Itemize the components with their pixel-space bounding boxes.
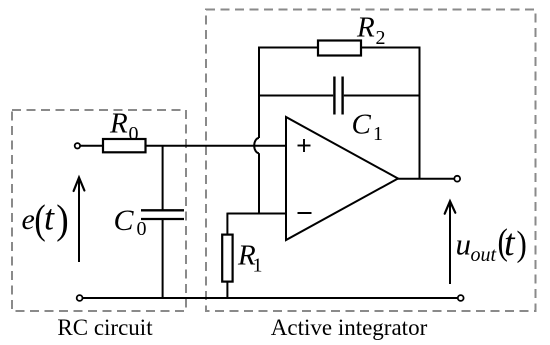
wire R1 bottom lead xyxy=(226,282,228,298)
resistor R1 xyxy=(222,235,232,282)
capacitor C1 xyxy=(333,77,335,115)
bottom-right terminal xyxy=(458,295,464,301)
wire C1 left xyxy=(259,95,333,97)
output wire xyxy=(397,178,454,180)
wire R1 top lead xyxy=(226,213,228,235)
svg-text:): ) xyxy=(517,225,527,264)
svg-text:C: C xyxy=(352,109,372,141)
input terminal (top left) xyxy=(75,143,80,148)
op-amp - sign xyxy=(298,212,312,214)
svg-text:t: t xyxy=(504,222,516,264)
u_out arrow xyxy=(449,202,451,284)
svg-text:R: R xyxy=(109,107,128,139)
op-amp U1 xyxy=(286,117,398,240)
feedback right vertical wire xyxy=(419,47,421,179)
wire minus input xyxy=(227,213,286,215)
capacitor C0 xyxy=(141,209,184,211)
svg-text:u: u xyxy=(456,227,472,262)
resistor R2 xyxy=(318,41,361,56)
resistor R0 xyxy=(103,139,146,152)
svg-text:out: out xyxy=(471,244,497,266)
svg-text:RC circuit: RC circuit xyxy=(57,315,153,340)
feedback left vertical wire lower xyxy=(258,153,260,214)
bottom wire (ground rail) xyxy=(83,297,458,299)
svg-text:0: 0 xyxy=(129,123,139,145)
wire C0 bottom lead xyxy=(162,219,164,298)
op-amp + sign xyxy=(298,145,311,147)
wire R2 top right xyxy=(361,47,420,49)
wire C0 top lead xyxy=(162,146,164,211)
Active integrator dashed box xyxy=(206,10,536,312)
svg-text:t: t xyxy=(44,198,55,238)
wire C1 right xyxy=(344,95,420,97)
wire R2 top left xyxy=(258,47,318,49)
svg-text:1: 1 xyxy=(373,123,383,145)
wire input to R0 xyxy=(80,145,103,147)
svg-text:2: 2 xyxy=(376,27,386,49)
svg-text:1: 1 xyxy=(253,254,263,276)
wire hop over + input wire xyxy=(254,138,259,153)
feedback left vertical wire upper xyxy=(258,47,260,138)
wire R0 to op-amp + input xyxy=(146,145,287,147)
output terminal xyxy=(454,176,460,182)
svg-text:R: R xyxy=(356,11,375,43)
svg-text:e: e xyxy=(22,203,35,236)
bottom-left terminal xyxy=(77,295,83,301)
e(t) arrow xyxy=(78,178,80,262)
svg-text:Active integrator: Active integrator xyxy=(271,315,428,340)
svg-text:C: C xyxy=(114,204,135,237)
RC circuit dashed box xyxy=(12,110,186,311)
svg-text:): ) xyxy=(56,196,68,242)
svg-text:0: 0 xyxy=(137,218,147,240)
